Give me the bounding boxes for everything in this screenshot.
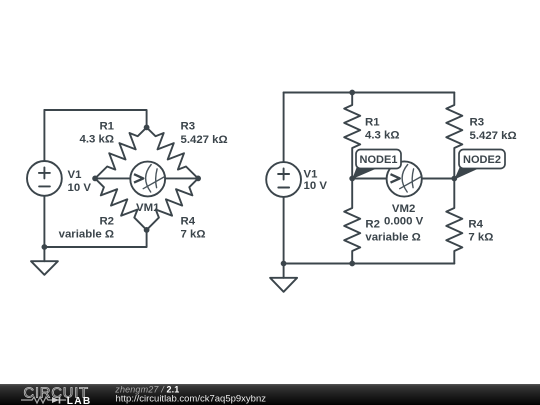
- svg-text:0.000 V: 0.000 V: [384, 216, 424, 228]
- svg-text:NODE1: NODE1: [360, 154, 398, 166]
- svg-text:R1: R1: [99, 120, 114, 132]
- svg-text:R1: R1: [365, 117, 380, 129]
- svg-text:5.427 kΩ: 5.427 kΩ: [181, 134, 228, 146]
- svg-text:VM1: VM1: [136, 202, 160, 214]
- svg-text:7 kΩ: 7 kΩ: [468, 232, 493, 244]
- svg-text:V1: V1: [68, 169, 83, 181]
- svg-text:7 kΩ: 7 kΩ: [181, 228, 206, 240]
- svg-text:NODE2: NODE2: [463, 154, 501, 166]
- svg-text:4.3 kΩ: 4.3 kΩ: [365, 130, 399, 142]
- svg-text:V1: V1: [304, 169, 319, 181]
- svg-text:10 V: 10 V: [68, 182, 92, 194]
- svg-text:4.3 kΩ: 4.3 kΩ: [80, 134, 114, 146]
- svg-text:http://circuitlab.com/ck7aq5p9: http://circuitlab.com/ck7aq5p9xybnz: [116, 394, 267, 405]
- svg-text:R2: R2: [365, 219, 380, 231]
- svg-text:R3: R3: [470, 117, 485, 129]
- svg-text:10 V: 10 V: [304, 180, 328, 192]
- svg-text:variable Ω: variable Ω: [59, 228, 114, 240]
- svg-text:5.427 kΩ: 5.427 kΩ: [470, 130, 517, 142]
- svg-text:R4: R4: [181, 215, 196, 227]
- svg-text:variable Ω: variable Ω: [365, 232, 420, 244]
- svg-text:R4: R4: [468, 219, 483, 231]
- svg-text:LAB: LAB: [67, 396, 92, 405]
- svg-text:VM2: VM2: [392, 203, 415, 215]
- svg-text:R3: R3: [181, 121, 196, 133]
- svg-text:R2: R2: [99, 215, 114, 227]
